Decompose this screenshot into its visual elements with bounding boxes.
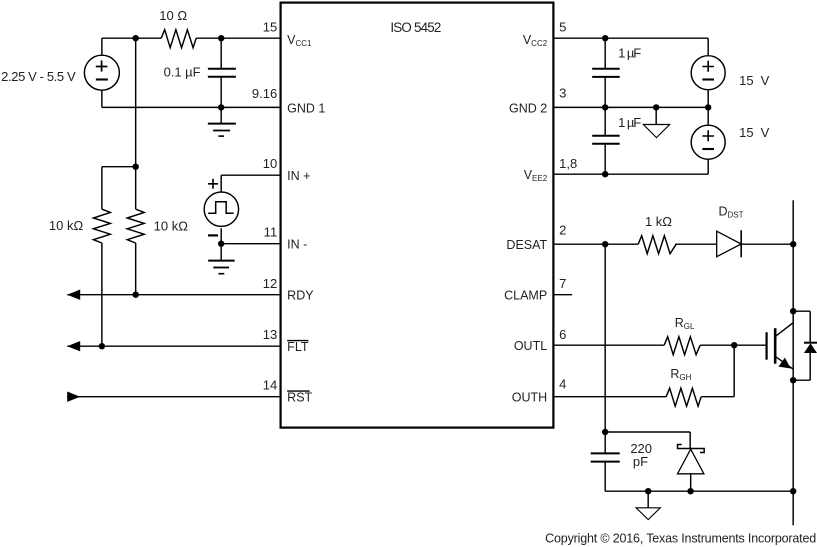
svg-text:0.1 µF: 0.1 µF [164, 65, 201, 80]
svg-text:11: 11 [264, 225, 278, 240]
svg-text:OUTH: OUTH [512, 391, 547, 405]
svg-text:12: 12 [263, 276, 277, 291]
svg-text:10 Ω: 10 Ω [159, 8, 187, 23]
svg-text:V: V [761, 125, 770, 140]
svg-text:5: 5 [559, 20, 566, 35]
svg-text:FLT: FLT [287, 340, 309, 354]
svg-text:VEE2: VEE2 [524, 168, 548, 183]
svg-text:Copyright © 2016, Texas Instru: Copyright © 2016, Texas Instruments Inco… [545, 532, 816, 546]
svg-text:RDY: RDY [287, 289, 314, 303]
svg-text:10 kΩ: 10 kΩ [49, 218, 84, 233]
svg-text:VCC2: VCC2 [523, 33, 548, 48]
svg-text:GND 2: GND 2 [509, 101, 547, 115]
svg-text:7: 7 [559, 276, 566, 291]
svg-text:VCC1: VCC1 [287, 33, 312, 48]
svg-text:3: 3 [559, 86, 566, 101]
svg-text:IN +: IN + [287, 169, 310, 183]
svg-text:OUTL: OUTL [514, 339, 547, 353]
svg-text:10: 10 [263, 156, 277, 171]
svg-text:15: 15 [739, 73, 753, 88]
svg-text:9.16: 9.16 [252, 86, 277, 101]
svg-text:4: 4 [559, 377, 566, 392]
svg-text:IN -: IN - [287, 238, 307, 252]
svg-text:2: 2 [559, 223, 566, 238]
svg-text:10 kΩ: 10 kΩ [154, 219, 189, 234]
svg-text:15: 15 [263, 20, 277, 35]
svg-text:13: 13 [263, 327, 277, 342]
svg-text:ISO 5452: ISO 5452 [390, 20, 441, 35]
svg-text:1 µF: 1 µF [618, 46, 641, 61]
svg-text:GND 1: GND 1 [287, 101, 325, 115]
svg-text:1,8: 1,8 [559, 156, 577, 171]
svg-text:DDST: DDST [718, 205, 743, 220]
svg-text:pF: pF [633, 454, 648, 469]
svg-text:RGH: RGH [670, 367, 691, 382]
svg-text:DESAT: DESAT [506, 238, 547, 252]
svg-text:V: V [761, 73, 770, 88]
svg-text:CLAMP: CLAMP [504, 289, 547, 303]
svg-text:1 kΩ: 1 kΩ [645, 214, 672, 229]
svg-text:1 µF: 1 µF [618, 115, 641, 130]
svg-text:15: 15 [739, 125, 753, 140]
svg-text:RST: RST [287, 391, 312, 405]
svg-text:14: 14 [263, 378, 277, 393]
svg-text:6: 6 [559, 327, 566, 342]
svg-text:2.25 V - 5.5 V: 2.25 V - 5.5 V [1, 69, 76, 84]
svg-text:RGL: RGL [675, 316, 695, 331]
